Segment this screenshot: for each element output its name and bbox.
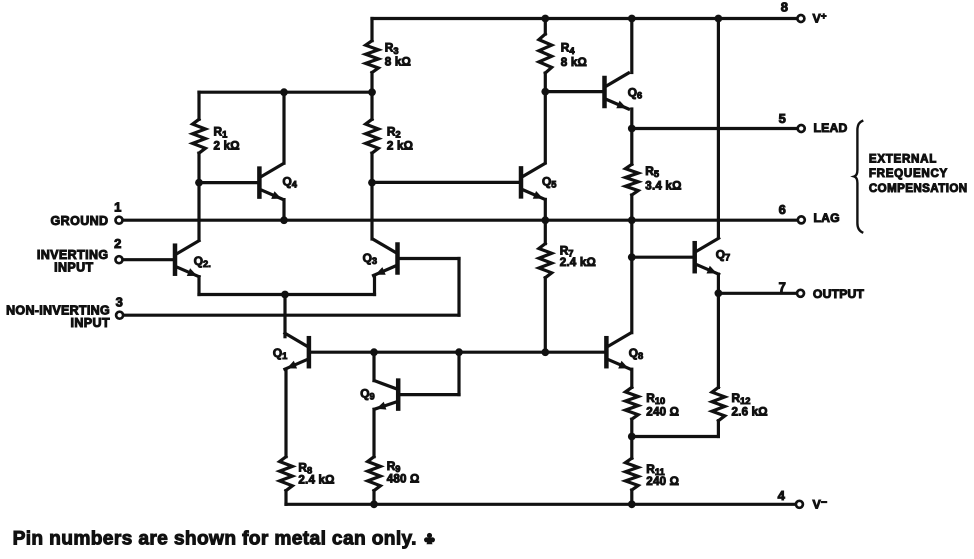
svg-text:COMPENSATION: COMPENSATION xyxy=(869,182,968,195)
svg-text:INPUT: INPUT xyxy=(54,260,94,274)
svg-text:4: 4 xyxy=(778,488,786,503)
svg-text:240 Ω: 240 Ω xyxy=(646,475,679,488)
svg-text:240 Ω: 240 Ω xyxy=(646,406,679,419)
svg-text:3: 3 xyxy=(116,294,123,309)
svg-text:2 kΩ: 2 kΩ xyxy=(214,139,240,152)
svg-text:GROUND: GROUND xyxy=(51,214,109,228)
svg-text:3.4 kΩ: 3.4 kΩ xyxy=(645,179,681,192)
svg-text:8: 8 xyxy=(781,0,788,15)
svg-text:Pin numbers are shown for meta: Pin numbers are shown for metal can only… xyxy=(13,529,417,550)
svg-text:6: 6 xyxy=(779,202,786,217)
svg-text:480 Ω: 480 Ω xyxy=(387,473,420,486)
svg-text:2 kΩ: 2 kΩ xyxy=(387,139,413,152)
svg-text:OUTPUT: OUTPUT xyxy=(813,287,865,301)
svg-text:1: 1 xyxy=(114,200,121,215)
svg-text:EXTERNAL: EXTERNAL xyxy=(869,152,937,165)
svg-text:2.4 kΩ: 2.4 kΩ xyxy=(560,256,596,269)
svg-text:LAG: LAG xyxy=(814,211,840,225)
svg-text:FREQUENCY: FREQUENCY xyxy=(869,167,948,180)
svg-text:5: 5 xyxy=(779,111,786,126)
svg-text:2.6 kΩ: 2.6 kΩ xyxy=(732,406,768,419)
svg-text:INPUT: INPUT xyxy=(71,316,111,330)
svg-text:2: 2 xyxy=(114,236,121,251)
svg-text:2.4 kΩ: 2.4 kΩ xyxy=(298,474,334,487)
svg-text:LEAD: LEAD xyxy=(814,121,848,135)
svg-text:8 kΩ: 8 kΩ xyxy=(385,56,411,69)
svg-text:8 kΩ: 8 kΩ xyxy=(561,56,587,69)
svg-text:7: 7 xyxy=(779,279,786,294)
